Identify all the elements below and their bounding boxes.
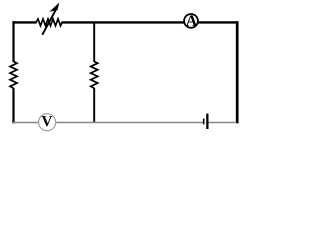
wire top (rheostat to top-right corner)	[62, 21, 239, 23]
wire bottom (left corner to cell)	[13, 122, 203, 124]
ammeter A circle	[184, 14, 198, 28]
rheostat arrowhead	[49, 3, 59, 12]
rheostat arrow shaft	[42, 9, 56, 35]
wire middle vertical (bottom part)	[93, 88, 95, 123]
resistor R3 (middle branch)	[91, 62, 98, 89]
ammeter A label	[186, 15, 197, 26]
wire left vertical (bottom part)	[12, 88, 14, 123]
battery cell long plate (positive)	[206, 114, 208, 129]
battery cell short plate (negative)	[203, 119, 205, 125]
voltmeter V label	[42, 116, 52, 126]
wire middle vertical (top part)	[93, 22, 95, 62]
wire right vertical	[236, 21, 239, 123]
resistor R2 (left branch)	[10, 62, 17, 89]
rheostat R1 zigzag	[36, 19, 62, 26]
wire top (left segment, corner to rheostat)	[12, 21, 36, 23]
wire bottom (cell to bottom-right corner)	[208, 122, 236, 124]
voltmeter V circle	[39, 114, 56, 131]
wire left vertical (top part)	[12, 21, 14, 62]
